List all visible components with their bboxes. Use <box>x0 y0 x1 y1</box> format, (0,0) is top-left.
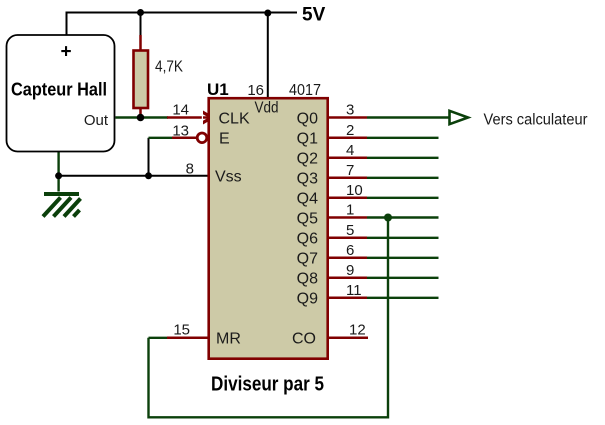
svg-text:Diviseur par 5: Diviseur par 5 <box>211 374 324 396</box>
svg-text:U1: U1 <box>207 80 229 99</box>
svg-text:2: 2 <box>346 122 354 139</box>
svg-text:8: 8 <box>186 161 194 178</box>
svg-text:Vss: Vss <box>215 169 242 186</box>
svg-text:E: E <box>219 131 230 148</box>
svg-text:12: 12 <box>349 322 366 339</box>
svg-text:Q6: Q6 <box>297 231 318 248</box>
svg-text:7: 7 <box>346 162 354 179</box>
svg-text:+: + <box>60 42 71 63</box>
svg-text:Q8: Q8 <box>297 271 318 288</box>
svg-text:Q4: Q4 <box>297 191 318 208</box>
svg-text:10: 10 <box>346 182 363 199</box>
svg-text:14: 14 <box>172 102 189 119</box>
svg-text:Q2: Q2 <box>297 151 318 168</box>
svg-text:Q7: Q7 <box>297 251 318 268</box>
svg-text:5: 5 <box>346 222 354 239</box>
svg-text:Q1: Q1 <box>297 131 318 148</box>
svg-text:15: 15 <box>173 322 190 339</box>
svg-text:Q0: Q0 <box>297 110 318 127</box>
svg-text:4017: 4017 <box>289 82 321 99</box>
svg-text:Q9: Q9 <box>297 291 318 308</box>
svg-text:4: 4 <box>346 142 354 159</box>
svg-text:Vers calculateur: Vers calculateur <box>484 112 588 129</box>
svg-text:13: 13 <box>172 123 189 140</box>
svg-text:11: 11 <box>346 282 362 299</box>
svg-text:5V: 5V <box>302 5 326 26</box>
svg-text:CO: CO <box>292 331 316 348</box>
svg-text:1: 1 <box>346 202 354 219</box>
svg-text:CLK: CLK <box>219 110 250 127</box>
svg-text:Capteur Hall: Capteur Hall <box>11 79 107 100</box>
svg-text:Out: Out <box>84 112 109 129</box>
svg-text:9: 9 <box>346 262 354 279</box>
svg-text:Q3: Q3 <box>297 171 318 188</box>
svg-text:3: 3 <box>346 102 354 119</box>
svg-text:6: 6 <box>346 242 354 259</box>
svg-text:16: 16 <box>247 82 264 99</box>
svg-text:Q5: Q5 <box>297 210 318 227</box>
svg-text:4,7K: 4,7K <box>155 59 184 76</box>
svg-text:Vdd: Vdd <box>255 100 279 117</box>
svg-text:MR: MR <box>216 331 241 348</box>
